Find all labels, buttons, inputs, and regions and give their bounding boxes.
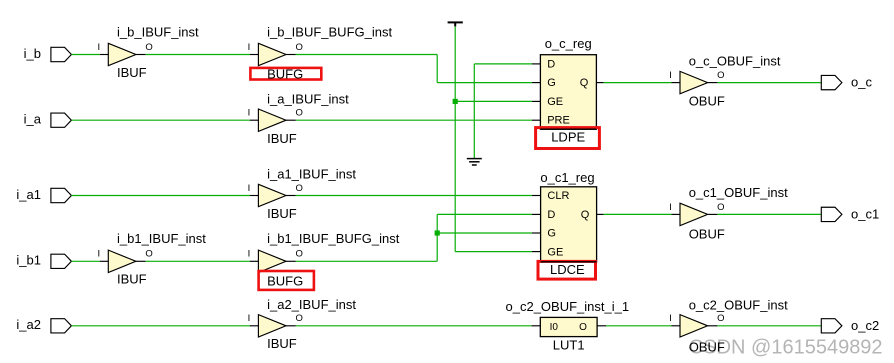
svg-text:o_c2: o_c2: [851, 318, 879, 333]
wire i_b_IBUF to BUFG: [146, 54, 250, 56]
svg-text:I: I: [248, 108, 251, 119]
svg-text:IBUF: IBUF: [267, 206, 297, 221]
buffer IBUF i_a_IBUF_inst: [248, 91, 350, 145]
svg-text:i_b1_IBUF_BUFG_inst: i_b1_IBUF_BUFG_inst: [267, 231, 400, 246]
svg-text:o_c1_OBUF_inst: o_c1_OBUF_inst: [689, 185, 788, 200]
svg-text:O: O: [296, 183, 303, 194]
svg-text:i_b_IBUF_BUFG_inst: i_b_IBUF_BUFG_inst: [267, 25, 392, 40]
wire o_c_reg Q to OBUF: [604, 82, 672, 84]
svg-text:i_a2_IBUF_inst: i_a2_IBUF_inst: [267, 297, 356, 312]
buffer BUFG i_b_IBUF_BUFG_inst: [248, 25, 393, 82]
svg-text:I: I: [248, 249, 251, 260]
output port o_c2: [821, 318, 879, 333]
buffer OBUF o_c1_OBUF_inst: [669, 185, 788, 242]
svg-text:IBUF: IBUF: [267, 336, 297, 351]
svg-text:i_b1_IBUF_inst: i_b1_IBUF_inst: [117, 231, 206, 246]
LUT1 o_c2_OBUF_inst_i_1: [506, 299, 630, 353]
svg-text:I: I: [248, 313, 251, 324]
svg-text:I: I: [248, 183, 251, 194]
svg-text:o_c_reg: o_c_reg: [545, 36, 592, 51]
net i_b1_IBUF_BUFG wire to o_c1_reg D and G: [296, 260, 438, 262]
latch o_c1_reg LDCE: [532, 170, 604, 279]
wire i_b1 port to IBUF: [71, 260, 99, 262]
svg-text:Q: Q: [581, 209, 590, 221]
net const0 vertical wire: [473, 64, 475, 158]
input port i_b: [24, 46, 72, 62]
svg-text:BUFG: BUFG: [267, 66, 303, 81]
svg-text:o_c_OBUF_inst: o_c_OBUF_inst: [689, 54, 781, 69]
net i_a1_IBUF wire to o_c1_reg CLR: [296, 195, 532, 197]
svg-text:IBUF: IBUF: [117, 65, 147, 80]
svg-text:O: O: [296, 108, 303, 119]
svg-text:I: I: [669, 202, 672, 213]
svg-text:IBUF: IBUF: [267, 131, 297, 146]
net i_a_IBUF wire to o_c_reg PRE: [296, 119, 532, 121]
output port o_c: [821, 75, 872, 90]
wire i_b port to IBUF: [71, 54, 99, 56]
svg-text:i_b1: i_b1: [16, 253, 41, 268]
wire const1 to o_c1_reg GE: [455, 251, 532, 253]
svg-text:i_a1_IBUF_inst: i_a1_IBUF_inst: [267, 167, 356, 182]
wire o_c2_OBUF to port: [717, 325, 821, 327]
svg-text:O: O: [145, 249, 152, 260]
svg-text:I: I: [248, 42, 251, 53]
wire const1 to o_c_reg GE: [455, 100, 532, 102]
buffer IBUF i_a2_IBUF_inst: [248, 297, 357, 351]
net const1 vertical wire: [454, 26, 456, 251]
svg-text:i_a_IBUF_inst: i_a_IBUF_inst: [267, 91, 349, 106]
svg-text:BUFG: BUFG: [267, 274, 303, 289]
buffer OBUF o_c2_OBUF_inst: [669, 297, 788, 354]
svg-text:i_a: i_a: [24, 112, 42, 127]
svg-text:O: O: [579, 322, 587, 333]
svg-text:GE: GE: [547, 96, 563, 108]
svg-text:i_a1: i_a1: [16, 187, 41, 202]
svg-text:D: D: [547, 209, 555, 221]
svg-text:o_c2_OBUF_inst: o_c2_OBUF_inst: [689, 297, 788, 312]
wire LUT1 O to OBUF: [606, 325, 672, 327]
svg-text:I: I: [669, 70, 672, 81]
svg-text:OBUF: OBUF: [689, 339, 725, 354]
svg-text:PRE: PRE: [547, 115, 570, 127]
svg-text:O: O: [296, 313, 303, 324]
net i_b_IBUF_BUFG wire to o_c_reg G: [296, 54, 438, 56]
svg-text:O: O: [717, 313, 724, 324]
svg-text:LDCE: LDCE: [550, 262, 585, 277]
svg-text:LDPE: LDPE: [551, 130, 585, 145]
svg-text:I: I: [97, 249, 100, 260]
svg-text:o_c1: o_c1: [851, 206, 879, 221]
input port i_a: [24, 112, 72, 128]
svg-text:OBUF: OBUF: [689, 226, 725, 241]
svg-text:I0: I0: [550, 322, 559, 333]
svg-text:o_c2_OBUF_inst_i_1: o_c2_OBUF_inst_i_1: [506, 299, 630, 314]
junction on i_b1_IBUF_BUFG net at G branch: [435, 230, 440, 235]
svg-text:G: G: [547, 77, 556, 89]
svg-text:I: I: [669, 313, 672, 324]
svg-text:G: G: [547, 228, 556, 240]
svg-text:Q: Q: [580, 77, 589, 89]
svg-text:OBUF: OBUF: [689, 94, 725, 109]
output port o_c1: [821, 206, 879, 221]
wire o_c1_OBUF to port: [717, 213, 821, 215]
buffer IBUF i_b_IBUF_inst: [97, 25, 199, 80]
buffer IBUF i_b1_IBUF_inst: [97, 231, 206, 287]
svg-text:D: D: [547, 58, 555, 70]
svg-text:IBUF: IBUF: [117, 272, 147, 287]
junction const1 to o_c_reg GE: [453, 99, 458, 104]
wire i_a port to IBUF: [71, 119, 250, 121]
input port i_a1: [16, 187, 71, 203]
svg-text:O: O: [717, 202, 724, 213]
svg-text:LUT1: LUT1: [553, 338, 585, 353]
input port i_b1: [16, 253, 71, 269]
svg-text:O: O: [296, 249, 303, 260]
wire o_c_OBUF to port: [717, 82, 821, 84]
svg-text:i_b_IBUF_inst: i_b_IBUF_inst: [117, 25, 199, 40]
svg-text:O: O: [717, 70, 724, 81]
svg-text:CLR: CLR: [547, 190, 569, 202]
svg-text:GE: GE: [547, 246, 563, 258]
buffer IBUF i_a1_IBUF_inst: [248, 167, 357, 221]
wire i_b1_IBUF to BUFG: [146, 260, 250, 262]
svg-text:i_a2: i_a2: [16, 317, 41, 332]
ground symbol const0: [467, 159, 482, 165]
wire i_a1 port to IBUF: [71, 195, 250, 197]
svg-text:O: O: [145, 42, 152, 53]
buffer BUFG i_b1_IBUF_BUFG_inst: [248, 231, 400, 290]
wire i_a2 port to IBUF: [71, 325, 250, 327]
net i_a2_IBUF wire to LUT1: [296, 325, 532, 327]
wire o_c1_reg Q to OBUF: [604, 213, 672, 215]
svg-text:o_c: o_c: [851, 75, 872, 90]
wire const0 to o_c_reg D: [474, 63, 532, 65]
svg-text:O: O: [296, 42, 303, 53]
buffer OBUF o_c_OBUF_inst: [669, 54, 781, 109]
svg-text:I: I: [97, 42, 100, 53]
svg-text:i_b: i_b: [24, 46, 41, 61]
power symbol VCC const1: [448, 22, 463, 26]
svg-text:o_c1_reg: o_c1_reg: [540, 170, 594, 185]
latch o_c_reg LDPE: [532, 36, 604, 148]
input port i_a2: [16, 317, 71, 333]
